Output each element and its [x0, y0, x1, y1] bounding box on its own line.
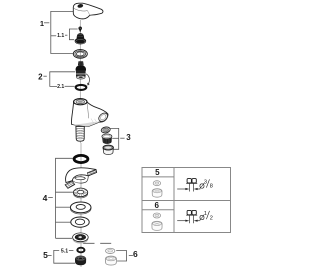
svg-text:5.1: 5.1: [61, 248, 68, 254]
svg-text:1: 1: [40, 19, 44, 28]
svg-text:1: 1: [204, 211, 207, 217]
svg-text:3: 3: [204, 179, 207, 185]
svg-text:3: 3: [126, 133, 131, 142]
svg-text:2.1: 2.1: [57, 84, 64, 90]
svg-text:6: 6: [154, 201, 159, 210]
svg-text:2: 2: [38, 72, 43, 81]
svg-text:4: 4: [43, 193, 48, 203]
svg-text:2: 2: [210, 215, 213, 221]
svg-text:5: 5: [155, 168, 160, 177]
svg-text:1.1: 1.1: [57, 33, 64, 39]
svg-text:6: 6: [133, 249, 138, 259]
svg-text:8: 8: [210, 184, 213, 190]
svg-text:5: 5: [43, 250, 48, 260]
